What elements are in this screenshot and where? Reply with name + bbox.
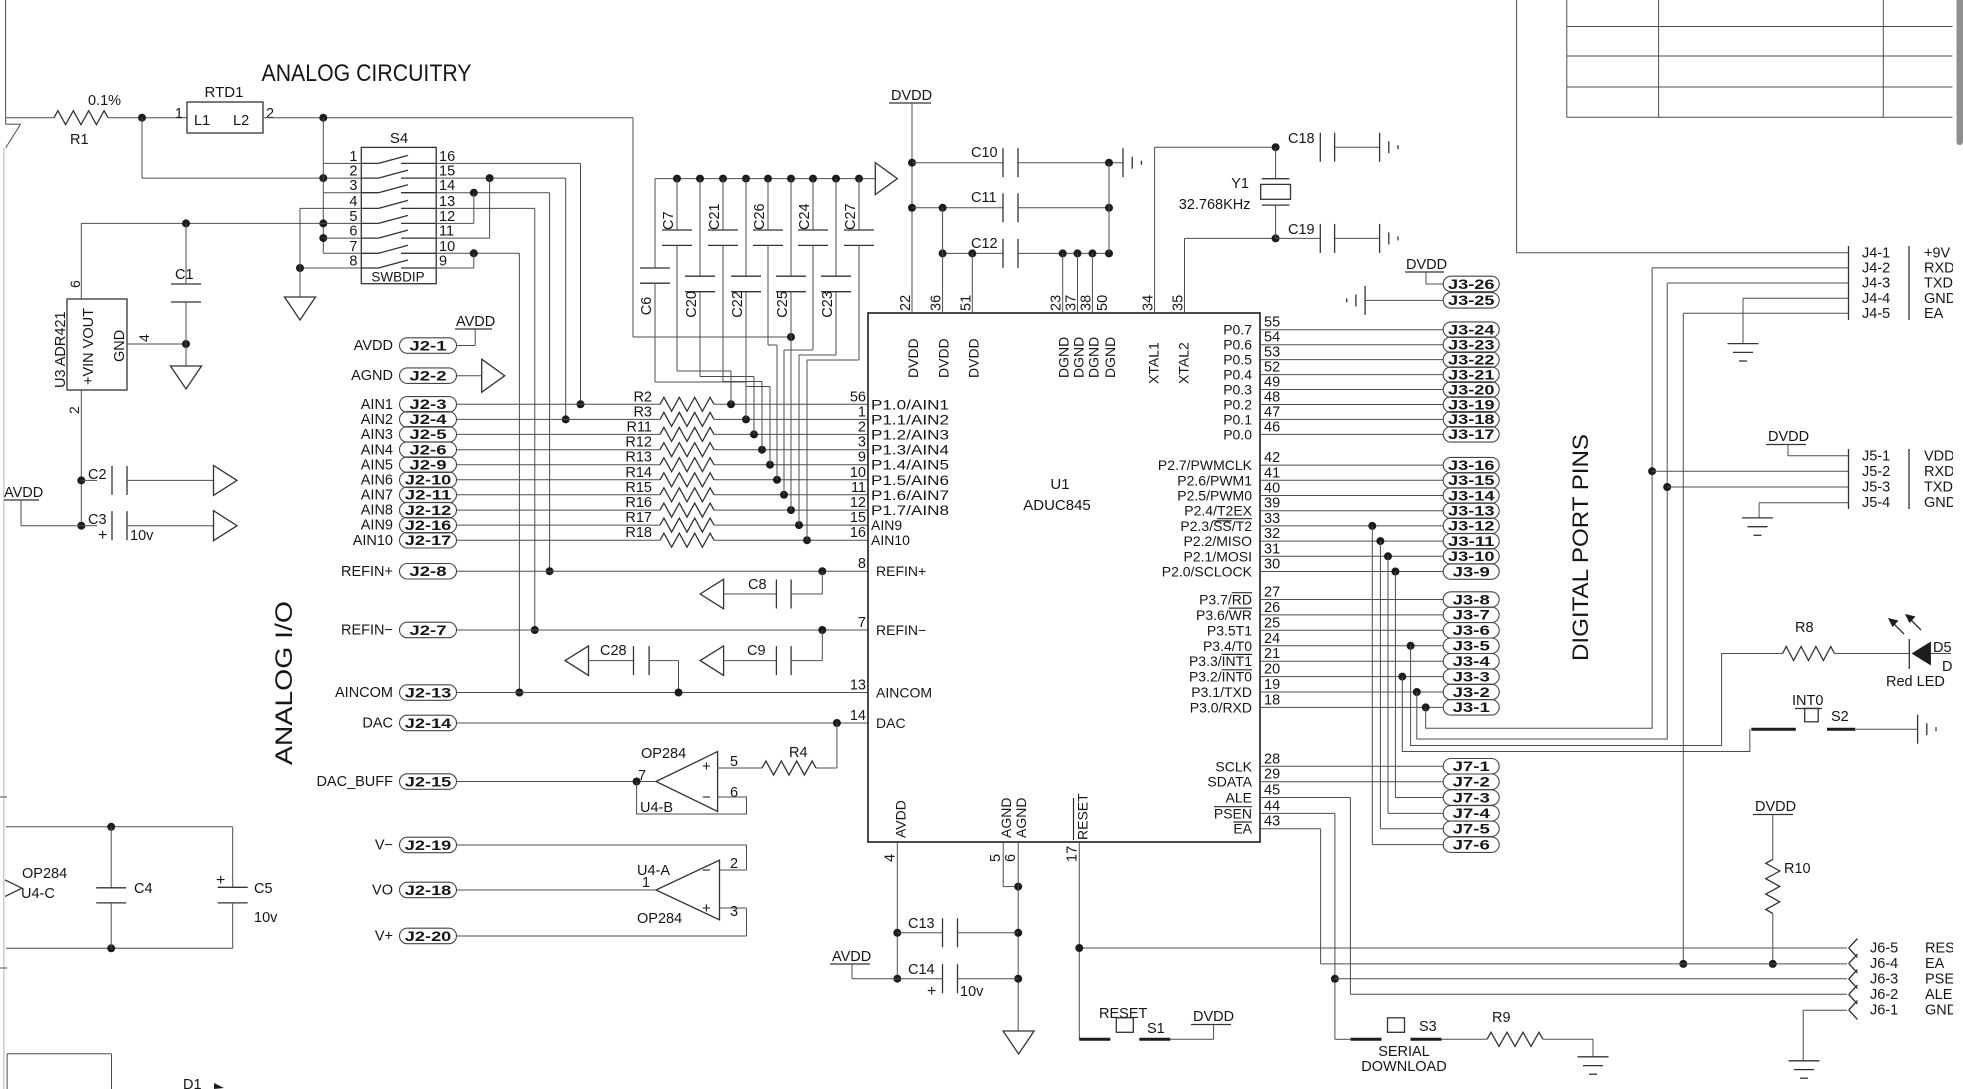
connector J7-6 [1443,837,1499,853]
wire RXD net [1422,703,1430,711]
svg-text:DVDD: DVDD [905,338,921,378]
svg-text:P3.6/WR: P3.6/WR [1196,607,1252,623]
svg-text:REFIN+: REFIN+ [341,564,393,580]
svg-text:RESET: RESET [1074,793,1090,840]
wire DGND bus [1108,163,1110,254]
svg-text:AIN5: AIN5 [361,457,393,473]
svg-text:+: + [98,527,107,544]
wire J5-3 [1667,486,1848,488]
svg-text:J3-14: J3-14 [1448,488,1495,503]
svg-text:J3-24: J3-24 [1448,323,1495,338]
wire DVDD to U1 pin22 [911,103,913,313]
svg-text:7: 7 [349,239,357,255]
svg-text:4: 4 [136,334,152,342]
svg-text:29: 29 [1264,767,1280,783]
svg-text:J3-1: J3-1 [1453,700,1491,715]
frame top right block [1516,0,1518,253]
scrollbar [1957,0,1963,145]
svg-text:J2-4: J2-4 [409,412,447,427]
svg-text:10v: 10v [960,984,984,1000]
svg-text:J5-2: J5-2 [1862,464,1890,480]
svg-text:EA: EA [1925,956,1945,972]
capacitor C25 [790,179,792,277]
svg-text:J4-5: J4-5 [1862,306,1890,322]
connector J3-12 [1260,525,1443,527]
svg-text:R2: R2 [633,389,652,405]
svg-text:J2-10: J2-10 [405,473,452,488]
svg-text:R16: R16 [625,495,652,511]
wire S4 pin4-pin8 ground leg [299,208,301,297]
svg-text:DAC_BUFF: DAC_BUFF [316,774,393,790]
svg-text:6: 6 [730,785,738,801]
ground S4 [285,297,316,320]
connector J3-4 [1260,660,1443,662]
svg-text:J4-2: J4-2 [1862,260,1890,276]
op-amp U4-A [656,860,720,920]
svg-text:R3: R3 [633,404,652,420]
svg-text:J3-6: J3-6 [1453,623,1491,638]
wire U4-B feedback [637,782,747,815]
svg-text:4: 4 [349,194,357,210]
wire S4 pin15 to AIN2 [436,177,566,179]
wire U4-B pin5 to R4 [718,767,762,769]
svg-text:1: 1 [175,106,183,122]
svg-text:55: 55 [1264,315,1280,331]
svg-text:SDATA: SDATA [1207,774,1252,790]
wire J6-1 GND [1803,1009,1847,1011]
connector J3-22 [1260,359,1443,361]
wire EA J6-4 [1320,829,1322,964]
wire S4 pin7 [323,252,361,254]
ground J4-4 [1728,343,1759,345]
page border left [5,0,7,124]
svg-text:S3: S3 [1419,1019,1437,1035]
svg-text:REFIN−: REFIN− [341,623,393,639]
wire S4 left bus vertical [322,118,324,254]
svg-text:P2.6/PWM1: P2.6/PWM1 [1177,472,1252,488]
svg-text:C9: C9 [747,643,766,659]
svg-text:SCLK: SCLK [1215,758,1252,774]
AGND arrow C2 [214,465,238,495]
connector J3-1 [1260,706,1443,708]
svg-text:P2.5/PWM0: P2.5/PWM0 [1177,488,1252,504]
wire S4 pin6 [323,237,361,239]
svg-text:8: 8 [349,254,357,270]
svg-text:J4-1: J4-1 [1862,245,1890,261]
svg-text:SWBDIP: SWBDIP [371,270,424,285]
wire AIN9 to U1 [714,524,868,526]
wire S4 pin13 to REFIN- [436,207,535,209]
svg-text:J5-3: J5-3 [1862,480,1890,496]
svg-text:AIN10: AIN10 [871,532,910,548]
svg-text:AINCOM: AINCOM [876,685,932,701]
svg-text:10v: 10v [130,528,154,544]
svg-text:R4: R4 [789,745,808,761]
svg-text:P1.7/AIN8: P1.7/AIN8 [871,502,949,518]
connector J4 body [1848,246,1850,320]
svg-text:50: 50 [1095,295,1111,311]
ground AGND bottom [1003,1031,1034,1054]
wire V- rail U4-C [6,947,233,949]
svg-text:R10: R10 [1784,861,1811,877]
connector J3-13 [1260,510,1443,512]
wire S4 pin8 [300,267,361,269]
connector J3-23 [1260,344,1443,346]
table title block [1567,26,1953,28]
svg-text:J3-4: J3-4 [1453,654,1491,669]
wire R4 to DAC [816,767,837,769]
svg-text:D1: D1 [183,1077,202,1089]
svg-text:DGND: DGND [1071,337,1087,378]
svg-text:P0.6: P0.6 [1223,337,1252,353]
capacitor C9 [700,646,723,676]
capacitor C24 [812,179,814,230]
wire RESET net J6-5 [1079,947,1847,949]
svg-text:10: 10 [439,239,455,255]
svg-text:RXD: RXD [1924,464,1955,480]
svg-text:J3-3: J3-3 [1453,669,1491,684]
svg-text:J6-1: J6-1 [1870,1003,1898,1019]
connector J3-20 [1260,389,1443,391]
connector J3-15 [1260,479,1443,481]
svg-text:RESET: RESET [1099,1006,1147,1022]
capacitor C7 [676,179,678,230]
svg-text:J4-3: J4-3 [1862,276,1890,292]
svg-text:+: + [702,900,711,917]
wire RTD1 junction to S4 pin2 [141,118,143,178]
ground C10 [1122,148,1124,177]
wire U1 AVDD pin4 [896,842,898,979]
wire U1 pin51 [971,253,973,313]
svg-text:U3 ADR421: U3 ADR421 [53,311,69,388]
wire S4 pin10 to AINCOM [436,252,519,254]
wire U1 AGND pins [1002,842,1004,887]
svg-text:ADUC845: ADUC845 [1023,497,1091,514]
AGND arrow bus [875,163,897,195]
svg-text:XTAL2: XTAL2 [1176,342,1192,384]
svg-text:13: 13 [850,678,866,694]
svg-text:0.1%: 0.1% [88,93,121,109]
wire PSEN J6-3 [1260,812,1335,814]
wire V+ rail U4-C [6,826,233,828]
svg-text:J3-25: J3-25 [1448,293,1495,308]
wire AIN4 to U1 [714,449,868,451]
svg-text:R13: R13 [625,450,652,466]
svg-text:+: + [927,983,936,1000]
svg-text:27: 27 [1264,585,1280,601]
wire RTD1 pin2 top run [263,117,633,119]
wire S3 to R9 [1442,1038,1487,1040]
svg-text:10v: 10v [254,910,278,926]
connector J3-16 [1260,464,1443,466]
svg-text:P1.1/AIN2: P1.1/AIN2 [871,411,949,427]
svg-text:8: 8 [858,556,866,572]
svg-text:P3.0/RXD: P3.0/RXD [1190,699,1252,715]
svg-text:J3-10: J3-10 [1448,549,1495,564]
svg-text:32: 32 [1264,526,1280,542]
svg-text:J3-20: J3-20 [1448,382,1495,397]
svg-text:54: 54 [1264,330,1280,346]
svg-text:S1: S1 [1147,1021,1165,1037]
off-page arrow input [6,117,54,119]
svg-text:56: 56 [850,389,866,405]
wire EA pin exit [1260,828,1321,830]
svg-text:46: 46 [1264,419,1280,435]
svg-text:16: 16 [850,525,866,541]
svg-text:D: D [1942,659,1952,675]
ground R9 [1578,1056,1609,1058]
svg-text:DVDD: DVDD [965,338,981,378]
svg-text:DVDD: DVDD [1755,799,1796,815]
svg-text:AVDD: AVDD [892,800,908,838]
svg-text:5: 5 [349,209,357,225]
svg-text:−: − [702,789,711,806]
svg-text:15: 15 [850,510,866,526]
svg-text:J2-7: J2-7 [409,623,446,638]
svg-text:EA: EA [1924,306,1944,322]
svg-text:AGND: AGND [1013,798,1029,838]
svg-text:ALE: ALE [1925,987,1953,1003]
svg-text:AIN7: AIN7 [361,487,393,503]
svg-text:C4: C4 [134,881,153,897]
svg-text:DAC: DAC [362,716,393,732]
svg-text:DVDD: DVDD [1768,429,1809,445]
svg-text:P1.4/AIN5: P1.4/AIN5 [871,457,949,473]
capacitor C4 [110,827,112,888]
svg-text:SERIAL: SERIAL [1378,1044,1430,1060]
svg-text:P3.2/INT0: P3.2/INT0 [1189,669,1252,685]
wire AIN8 to U1 [714,509,868,511]
wire S4 pin10-pin9 link [473,253,475,268]
op-amp U4-C partial [5,880,22,888]
svg-text:J3-8: J3-8 [1453,592,1491,607]
svg-text:J2-20: J2-20 [405,929,452,944]
svg-text:9: 9 [439,254,447,270]
svg-text:U1: U1 [1050,476,1069,493]
svg-text:J2-5: J2-5 [409,427,447,442]
svg-text:P1.2/AIN3: P1.2/AIN3 [871,426,949,442]
svg-text:J7-1: J7-1 [1453,759,1491,774]
svg-text:J3-12: J3-12 [1448,519,1495,534]
svg-text:49: 49 [1264,375,1280,391]
capacitor C26 [767,179,769,230]
svg-text:DAC: DAC [876,715,906,731]
svg-text:C26: C26 [752,203,768,230]
svg-text:6: 6 [67,280,83,288]
svg-text:J2-16: J2-16 [405,518,452,533]
wire AIN7 to U1 [714,494,868,496]
svg-text:REFIN+: REFIN+ [876,563,926,579]
svg-text:C18: C18 [1288,131,1315,147]
svg-text:31: 31 [1264,541,1280,557]
svg-text:33: 33 [1264,511,1280,527]
connector J3-18 [1260,418,1443,420]
svg-text:45: 45 [1264,783,1280,799]
svg-text:C23: C23 [820,291,836,318]
ground J5-4 [1742,517,1773,519]
svg-text:U4-C: U4-C [21,886,55,902]
svg-text:R14: R14 [625,465,652,481]
svg-text:R9: R9 [1492,1010,1511,1026]
svg-text:L2: L2 [233,113,249,129]
svg-text:J7-2: J7-2 [1453,775,1490,790]
svg-text:26: 26 [1264,600,1280,616]
svg-text:D5: D5 [1933,640,1952,656]
svg-text:15: 15 [439,164,455,180]
svg-text:P2.1/MOSI: P2.1/MOSI [1184,548,1252,564]
svg-text:3: 3 [858,435,866,451]
svg-text:J3-15: J3-15 [1448,473,1495,488]
ground J6-1 [1789,1060,1820,1062]
connector J3-9 [1260,571,1443,573]
svg-text:21: 21 [1264,646,1280,662]
svg-text:AVDD: AVDD [832,949,871,965]
wire S4 pin15-pin11 link [489,178,491,238]
svg-text:P0.1: P0.1 [1223,411,1252,427]
svg-text:J3-9: J3-9 [1453,564,1490,579]
U3 ADR421 [67,299,127,390]
svg-text:AVDD: AVDD [456,314,495,330]
svg-text:REFIN−: REFIN− [876,622,926,638]
svg-text:C25: C25 [775,291,791,318]
svg-text:C22: C22 [730,291,746,318]
svg-text:XTAL1: XTAL1 [1146,342,1162,384]
svg-text:3: 3 [349,178,357,194]
svg-text:J2-13: J2-13 [405,685,452,700]
svg-text:C13: C13 [908,916,935,932]
wire U1 RESET pin to S1 [1078,842,1080,1039]
connector J3-25 [1443,293,1499,309]
svg-text:2: 2 [858,419,866,435]
LED D5 [1908,639,1910,669]
svg-text:J2-9: J2-9 [409,458,446,473]
capacitor C6 [654,179,656,268]
svg-text:+: + [702,758,711,775]
svg-text:J5-1: J5-1 [1862,448,1890,464]
capacitor C28 [565,646,588,676]
connector J3-8 [1260,599,1443,601]
svg-text:J3-7: J3-7 [1453,608,1490,623]
svg-text:J2-17: J2-17 [405,533,452,548]
svg-text:DGND: DGND [1102,337,1118,378]
svg-text:16: 16 [439,149,455,165]
svg-text:C6: C6 [639,297,655,316]
wire S4 pin14 to REFIN+ [436,192,549,194]
svg-text:4: 4 [882,854,898,862]
svg-text:52: 52 [1264,360,1280,376]
svg-text:2: 2 [266,106,274,122]
connector J3-26 [1443,276,1499,292]
svg-text:DIGITAL PORT PINS: DIGITAL PORT PINS [1568,434,1593,661]
svg-text:13: 13 [439,194,455,210]
svg-text:J6-2: J6-2 [1870,987,1898,1003]
wire ALE J6-2 [1260,797,1350,799]
svg-text:P3.1/TXD: P3.1/TXD [1191,684,1252,700]
svg-text:P1.5/AIN6: P1.5/AIN6 [871,472,949,488]
svg-text:J2-18: J2-18 [405,883,452,898]
svg-text:19: 19 [1264,677,1280,693]
ground J3-25 [1364,286,1366,315]
wire stubs left edge [0,796,7,798]
wire V+ to U4-A pin3 [746,908,748,936]
connector J3-11 [1260,540,1443,542]
svg-text:39: 39 [1264,496,1280,512]
svg-text:DVDD: DVDD [891,88,932,104]
connector J3-24 [1260,329,1443,331]
wire V- to U4-A pin2 [746,845,748,870]
svg-text:J7-5: J7-5 [1453,822,1491,837]
wire AIN5 to U1 [714,464,868,466]
wire AIN1 to U1 [714,403,868,405]
svg-text:AINCOM: AINCOM [335,685,393,701]
svg-text:ANALOG CIRCUITRY: ANALOG CIRCUITRY [262,60,472,87]
ground U3 [185,344,187,366]
svg-text:P1.0/AIN1: P1.0/AIN1 [871,396,949,412]
svg-text:41: 41 [1264,465,1280,481]
wire S4 pin5 row AVDD [81,222,361,224]
svg-text:J7-4: J7-4 [1453,806,1491,821]
svg-text:J3-5: J3-5 [1453,639,1491,654]
wire AIN10 to U1 [714,539,868,541]
svg-text:J3-16: J3-16 [1448,458,1495,473]
capacitor C23 [835,179,837,277]
svg-text:25: 25 [1264,615,1280,631]
page clip right [1953,0,1963,1089]
svg-text:P0.7: P0.7 [1223,322,1252,338]
connector J3-19 [1260,404,1443,406]
connector J3-10 [1260,555,1443,557]
connector J3-17 [1260,433,1443,435]
wire S4 pin1 [323,162,361,164]
svg-text:7: 7 [858,615,866,631]
svg-text:P2.4/T2EX: P2.4/T2EX [1184,503,1252,519]
svg-text:C19: C19 [1288,222,1315,238]
svg-text:P3.4/T0: P3.4/T0 [1203,638,1252,654]
wire TXD net [1413,688,1421,696]
svg-text:J2-12: J2-12 [405,503,452,518]
svg-text:28: 28 [1264,751,1280,767]
svg-text:GND: GND [1925,1003,1957,1019]
svg-text:14: 14 [850,708,866,724]
svg-text:R18: R18 [625,525,652,541]
svg-text:14: 14 [439,178,455,194]
svg-text:AIN2: AIN2 [361,412,393,428]
wire T0 to R8 [1407,642,1415,650]
svg-text:J3-2: J3-2 [1453,685,1490,700]
svg-text:L1: L1 [194,113,210,129]
svg-text:INT0: INT0 [1792,693,1823,709]
wire R1 to RTD1 [108,117,187,119]
connector J3-6 [1260,629,1443,631]
svg-text:V−: V− [375,838,393,854]
svg-text:44: 44 [1264,798,1280,814]
svg-text:DGND: DGND [1085,337,1101,378]
svg-text:J7-6: J7-6 [1453,837,1491,852]
svg-text:V+: V+ [375,929,393,945]
svg-text:40: 40 [1264,481,1280,497]
svg-text:DVDD: DVDD [936,338,952,378]
capacitor C27 [858,179,860,230]
svg-text:R1: R1 [70,132,89,148]
svg-text:P0.4: P0.4 [1223,367,1252,383]
svg-text:S2: S2 [1831,709,1849,725]
connector J7-4 [1388,812,1443,814]
svg-text:J3-22: J3-22 [1448,352,1495,367]
svg-text:RTD1: RTD1 [205,84,244,101]
svg-text:C8: C8 [748,577,767,593]
resistor R1 [54,111,108,125]
svg-text:C24: C24 [797,203,813,230]
